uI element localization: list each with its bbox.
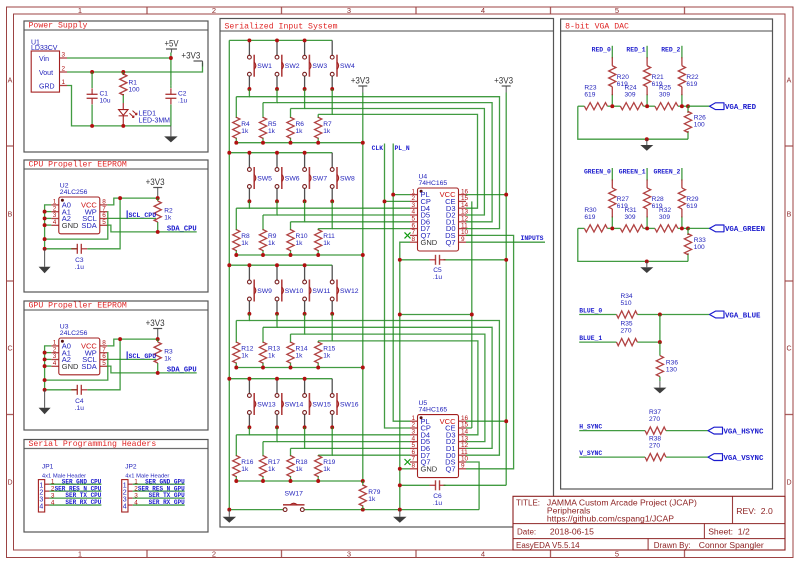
wire SW4 bus to U4 D0 xyxy=(332,114,477,208)
wire SW16 bus to U5 D7 xyxy=(332,454,410,456)
svg-text:REV: 2.0: REV: 2.0 xyxy=(736,506,773,516)
svg-text:10u: 10u xyxy=(100,98,111,105)
svg-text:130: 130 xyxy=(666,366,677,373)
ground xyxy=(223,510,237,523)
resistor R30 xyxy=(584,207,607,232)
junction cap/VCC xyxy=(118,337,122,341)
svg-text:2018-06-15: 2018-06-15 xyxy=(550,527,594,537)
wire SW8 bus to U4 D7 xyxy=(332,228,410,230)
wire SW14 bus to U5 D5 xyxy=(277,441,410,443)
svg-text:B: B xyxy=(8,212,13,219)
svg-text:C3: C3 xyxy=(75,257,84,264)
switch SW15 xyxy=(303,379,331,428)
junction WP gnd xyxy=(43,237,47,241)
wire RED_1 input xyxy=(646,46,648,59)
capacitor C5 xyxy=(430,255,446,281)
junction C5 right/+3V3 xyxy=(504,258,508,262)
wire CLK to U4 CP xyxy=(385,200,411,202)
wire SW7 bus to U4 D6 xyxy=(305,221,410,223)
svg-text:1k: 1k xyxy=(241,353,249,360)
svg-text:A: A xyxy=(787,78,792,85)
svg-text:GRD: GRD xyxy=(39,84,55,91)
wire left common vertical xyxy=(228,40,230,509)
svg-text:619: 619 xyxy=(686,81,697,88)
wire pin 4 SER_RX_CPU xyxy=(49,504,101,506)
junction CLK/U4 xyxy=(383,199,387,203)
ground xyxy=(653,381,666,393)
wire PL_N vertical xyxy=(393,144,410,422)
wire SW16 output jog xyxy=(318,427,332,455)
svg-text:5: 5 xyxy=(615,6,619,15)
resistor R27 xyxy=(609,180,630,218)
junction SW10 output xyxy=(275,312,279,316)
svg-text:SER_TX_GPU: SER_TX_GPU xyxy=(149,492,185,499)
switch SW3 xyxy=(303,40,328,89)
ic U4 74HC165 xyxy=(410,174,469,252)
junction SW4 output xyxy=(330,87,334,91)
net label SCL_CPU xyxy=(127,210,156,219)
svg-text:.1u: .1u xyxy=(75,264,84,271)
net label PL_N xyxy=(395,145,410,152)
junction SW15 output xyxy=(303,425,307,429)
wire Vout rail xyxy=(67,63,203,73)
resistor R35 xyxy=(617,321,638,346)
svg-text:74HC165: 74HC165 xyxy=(419,180,448,187)
wire SW5 bus to U4 D4 xyxy=(249,207,410,209)
wire SW15 bus to U5 D6 xyxy=(305,447,410,449)
wire switch row 3 top rail xyxy=(229,264,332,266)
junction top rail xyxy=(247,263,251,267)
svg-text:4: 4 xyxy=(51,499,55,506)
junction resistor/rail xyxy=(316,479,320,483)
wire SW5 output jog xyxy=(236,201,249,208)
resistor R18 xyxy=(287,456,308,477)
svg-text:SER_TX_CPU: SER_TX_CPU xyxy=(65,492,101,499)
wire SW12 output jog xyxy=(318,314,332,341)
svg-text:Vin: Vin xyxy=(39,56,49,63)
junction resistor/rail xyxy=(289,253,293,257)
junction rail/+3V3 vertical xyxy=(361,366,365,370)
wire SW9 bus to U5 D3 xyxy=(249,321,499,456)
resistor R17 xyxy=(259,456,280,477)
svg-text:270: 270 xyxy=(621,328,632,335)
resistor R33 xyxy=(684,234,706,255)
wire pin 3 SER_TX_GPU xyxy=(133,497,185,499)
switch SW17 xyxy=(229,491,304,512)
svg-text:SW5: SW5 xyxy=(257,176,272,183)
junction VCC/R pullup xyxy=(156,337,160,341)
no-connect flag xyxy=(405,459,411,465)
junction resistor/rail xyxy=(234,141,238,145)
resistor R6 wires xyxy=(290,109,292,118)
svg-text:B: B xyxy=(787,212,792,219)
svg-text:1: 1 xyxy=(39,482,43,489)
junction xyxy=(43,351,47,355)
svg-text:SW3: SW3 xyxy=(312,63,327,70)
svg-text:GND: GND xyxy=(421,238,438,247)
junction dac rail xyxy=(645,226,649,230)
svg-text:+3V3: +3V3 xyxy=(494,76,513,86)
junction C5 left/gnd xyxy=(398,258,402,262)
wire SW14 output jog xyxy=(263,427,277,441)
svg-text:.1u: .1u xyxy=(433,500,442,507)
svg-text:2: 2 xyxy=(212,6,216,15)
svg-text:R34: R34 xyxy=(621,293,633,300)
resistor R23 xyxy=(584,85,607,110)
port VGA_HSYNC xyxy=(708,427,764,436)
header JP1 4x1 Male Header xyxy=(38,464,86,513)
ic U2 24LC256 xyxy=(51,183,107,234)
svg-text:H_SYNC: H_SYNC xyxy=(579,424,602,431)
wire left pin xyxy=(45,211,52,213)
svg-text:+3V3: +3V3 xyxy=(146,318,165,328)
svg-text:1k: 1k xyxy=(296,128,304,135)
svg-text:1k: 1k xyxy=(268,466,276,473)
wire SW1 output jog xyxy=(236,89,249,97)
svg-text:R15: R15 xyxy=(323,346,335,353)
junction top rail xyxy=(275,38,279,42)
wire SW2 output jog xyxy=(263,89,277,103)
svg-text:1: 1 xyxy=(62,79,66,86)
junction SW6 output xyxy=(275,199,279,203)
resistor R29 xyxy=(678,180,699,218)
svg-text:GND: GND xyxy=(62,221,79,230)
svg-text:R14: R14 xyxy=(296,346,308,353)
wire VCC to +3V3 xyxy=(107,339,157,346)
junction SW5 output xyxy=(247,199,251,203)
svg-text:2: 2 xyxy=(212,549,216,558)
svg-text:1k: 1k xyxy=(268,240,276,247)
svg-text:R1: R1 xyxy=(129,80,138,87)
junction SW12 output xyxy=(330,312,334,316)
svg-text:GND: GND xyxy=(62,362,79,371)
junction xyxy=(43,210,47,214)
svg-text:Sheet: 1/2: Sheet: 1/2 xyxy=(708,527,750,537)
svg-text:619: 619 xyxy=(584,214,595,221)
wire pullup rail row 2 xyxy=(236,254,362,256)
svg-text:SDA_GPU: SDA_GPU xyxy=(167,366,197,374)
wire SW10 bus to U5 D2 xyxy=(277,327,492,448)
wire switch row 2 top rail xyxy=(229,152,332,154)
svg-text:Q7: Q7 xyxy=(445,464,455,473)
svg-text:R3: R3 xyxy=(164,349,173,356)
resistor R13 wires xyxy=(262,327,264,342)
wire +3V3 right vertical xyxy=(505,93,507,486)
svg-text:LED-3MM: LED-3MM xyxy=(139,117,171,124)
junction gnd/LED1 xyxy=(121,124,125,128)
resistor R3 wires xyxy=(157,339,159,342)
wire VCC to +3V3 xyxy=(107,198,157,205)
power +3V3 xyxy=(146,177,165,198)
svg-text:5: 5 xyxy=(102,360,106,367)
svg-text:SW4: SW4 xyxy=(340,63,355,70)
svg-text:1k: 1k xyxy=(241,128,249,135)
wire dac rail xyxy=(578,105,585,107)
svg-text:4: 4 xyxy=(39,503,43,510)
svg-text:R7: R7 xyxy=(323,121,332,128)
svg-text:VGA_GREEN: VGA_GREEN xyxy=(725,226,765,234)
resistor R36 xyxy=(656,356,678,377)
junction gnd stem dac xyxy=(645,137,649,141)
junction gnd cap row xyxy=(43,247,47,251)
wire SW15 output jog xyxy=(291,427,305,448)
resistor R26 xyxy=(684,111,706,132)
svg-text:SW10: SW10 xyxy=(285,288,304,295)
resistor R3 xyxy=(154,342,173,363)
wire dac ground return xyxy=(578,106,688,139)
resistor R10 xyxy=(287,230,308,251)
wire U5 VCC xyxy=(466,420,506,422)
wire pin 3 SER_TX_CPU xyxy=(49,497,101,499)
svg-text:1k: 1k xyxy=(241,240,249,247)
svg-text:C1: C1 xyxy=(100,91,109,98)
svg-text:VGA_BLUE: VGA_BLUE xyxy=(725,312,761,320)
wire PL_N to U4 PL xyxy=(393,194,410,196)
svg-text:3: 3 xyxy=(347,6,351,15)
svg-text:SER_RES_N_CPU: SER_RES_N_CPU xyxy=(55,485,102,492)
net label CLK xyxy=(372,145,384,152)
wire U4 CE / U5 CE common xyxy=(466,234,472,236)
resistor R4 wires xyxy=(235,97,237,118)
resistor R2 xyxy=(154,201,173,222)
svg-text:R26: R26 xyxy=(694,115,706,122)
resistor R31 xyxy=(620,207,643,232)
svg-text:SDA_CPU: SDA_CPU xyxy=(167,225,197,233)
svg-text:619: 619 xyxy=(584,92,595,99)
svg-text:SDA: SDA xyxy=(81,362,96,371)
ground xyxy=(39,390,51,415)
svg-text:SW11: SW11 xyxy=(312,288,330,295)
junction rail/+3V3 vertical xyxy=(361,479,365,483)
junction dac out xyxy=(686,104,690,108)
svg-text:1k: 1k xyxy=(323,240,331,247)
wire GREEN_0 input xyxy=(611,168,613,181)
svg-text:4: 4 xyxy=(481,549,485,558)
svg-text:R8: R8 xyxy=(241,233,250,240)
svg-text:SW1: SW1 xyxy=(257,63,272,70)
ground xyxy=(393,510,407,523)
wire BLUE_1 xyxy=(579,341,616,343)
junction resistor/rail xyxy=(261,479,265,483)
wire SW6 bus to U4 D5 xyxy=(277,214,410,216)
resistor R11 xyxy=(315,230,336,251)
capacitor C6 xyxy=(430,480,446,507)
wire SW12 bus to U5 D0 xyxy=(332,341,478,435)
svg-text:CPU Propeller EEPROM: CPU Propeller EEPROM xyxy=(29,160,127,170)
junction gnd/C1 xyxy=(90,124,94,128)
svg-text:1k: 1k xyxy=(323,466,331,473)
svg-text:4: 4 xyxy=(134,499,138,506)
switch SW9 xyxy=(248,265,273,314)
junction cap/VCC xyxy=(118,196,122,200)
capacitor C3 xyxy=(71,244,87,271)
svg-text:.1u: .1u xyxy=(433,274,442,281)
junction WP gnd xyxy=(43,378,47,382)
svg-text:VGA_RED: VGA_RED xyxy=(725,104,757,112)
junction resistor/rail xyxy=(316,253,320,257)
svg-text:SW16: SW16 xyxy=(340,402,359,409)
wire H_SYNC xyxy=(579,430,645,432)
svg-text:.1u: .1u xyxy=(178,98,187,105)
svg-text:C: C xyxy=(7,346,12,353)
resistor R34 xyxy=(617,293,638,318)
svg-text:R35: R35 xyxy=(621,321,633,328)
svg-text:+3V3: +3V3 xyxy=(181,51,200,61)
svg-text:SW17: SW17 xyxy=(284,491,303,498)
capacitor C6 wires xyxy=(400,484,430,486)
svg-text:24LC256: 24LC256 xyxy=(60,189,88,196)
wire SW6 output jog xyxy=(263,201,277,215)
wire cap to VCC net xyxy=(87,339,120,390)
resistor R17 wires xyxy=(262,442,264,457)
resistor R5 xyxy=(259,117,276,138)
svg-text:Date:: Date: xyxy=(517,528,536,537)
junction top rail xyxy=(247,377,251,381)
resistor R19 xyxy=(315,456,336,477)
resistor R8 xyxy=(233,230,250,251)
svg-text:SW12: SW12 xyxy=(340,288,359,295)
svg-text:9: 9 xyxy=(461,463,465,470)
svg-text:R10: R10 xyxy=(296,233,308,240)
svg-text:R19: R19 xyxy=(323,459,335,466)
junction xyxy=(43,216,47,220)
junction top rail xyxy=(303,263,307,267)
svg-text:2: 2 xyxy=(123,489,127,496)
ground xyxy=(39,249,51,273)
junction xyxy=(43,364,47,368)
wire switch row 1 top rail xyxy=(229,39,332,41)
svg-text:2: 2 xyxy=(62,66,66,73)
wire SW7 output jog xyxy=(291,201,305,222)
switch SW12 xyxy=(330,265,358,314)
resistor R16 wires xyxy=(235,435,237,456)
svg-text:Power Supply: Power Supply xyxy=(29,21,88,31)
svg-text:D: D xyxy=(786,480,791,487)
wire pin 2 SER_RES_N_CPU xyxy=(49,490,101,492)
svg-text:D: D xyxy=(7,480,12,487)
junction resistor/rail xyxy=(289,479,293,483)
svg-text:R27: R27 xyxy=(617,196,629,203)
svg-text:2: 2 xyxy=(39,489,43,496)
svg-text:SER_RX_CPU: SER_RX_CPU xyxy=(65,499,101,506)
svg-text:SER_GND_CPU: SER_GND_CPU xyxy=(62,478,102,485)
switch SW1 xyxy=(248,40,273,89)
junction dac rail xyxy=(610,226,614,230)
junction top rail xyxy=(303,377,307,381)
svg-text:24LC256: 24LC256 xyxy=(60,330,88,337)
svg-text:R37: R37 xyxy=(649,409,661,416)
wire RED_2 input xyxy=(681,46,683,59)
resistor R10 wires xyxy=(290,222,292,230)
svg-text:EasyEDA V5.5.14: EasyEDA V5.5.14 xyxy=(516,541,580,550)
svg-text:SW9: SW9 xyxy=(257,288,272,295)
junction resistor/rail xyxy=(261,366,265,370)
resistor R5 wires xyxy=(262,103,264,118)
wire SW13 bus to U5 D4 xyxy=(249,434,410,436)
switch SW7 xyxy=(303,153,328,202)
resistor R32 xyxy=(655,207,678,232)
svg-text:74HC165: 74HC165 xyxy=(419,407,448,414)
wire dac rail xyxy=(578,227,585,229)
junction resistor/rail xyxy=(316,366,320,370)
wire SW11 output jog xyxy=(291,314,305,334)
svg-text:Connor Spangler: Connor Spangler xyxy=(699,540,764,550)
svg-text:R4: R4 xyxy=(241,121,250,128)
resistor R4 xyxy=(233,117,250,138)
svg-text:3: 3 xyxy=(62,52,66,59)
junction resistor/rail xyxy=(261,253,265,257)
resistor R9 xyxy=(259,230,276,251)
svg-text:R20: R20 xyxy=(617,74,629,81)
regulator U1 LD33CV xyxy=(31,40,67,93)
capacitor C1 wires xyxy=(91,72,93,88)
svg-text:SW14: SW14 xyxy=(285,402,304,409)
resistor R22 xyxy=(678,57,699,95)
svg-text:1: 1 xyxy=(78,6,82,15)
svg-text:JP2: JP2 xyxy=(125,464,137,471)
resistor R15 xyxy=(315,342,336,363)
svg-text:SW2: SW2 xyxy=(285,63,300,70)
capacitor C4 xyxy=(71,385,87,412)
svg-text:3: 3 xyxy=(51,492,55,499)
svg-text:R36: R36 xyxy=(666,359,678,366)
ground xyxy=(164,126,178,142)
junction BLUE_0 node xyxy=(658,313,662,317)
wire INPUTS xyxy=(466,241,545,243)
svg-text:SW6: SW6 xyxy=(285,176,300,183)
svg-text:Serial Programming Headers: Serial Programming Headers xyxy=(29,439,157,449)
svg-text:Vout: Vout xyxy=(39,70,53,77)
svg-text:4: 4 xyxy=(481,6,485,15)
capacitor C1 xyxy=(87,88,111,104)
svg-text:GREEN_0: GREEN_0 xyxy=(584,169,611,176)
svg-text:100: 100 xyxy=(694,122,705,129)
svg-text:SER_RES_N_GPU: SER_RES_N_GPU xyxy=(138,485,185,492)
junction SW9 output xyxy=(247,312,251,316)
resistor R7 xyxy=(315,117,332,138)
svg-text:100: 100 xyxy=(694,244,705,251)
section box Serialized Input System xyxy=(220,19,554,528)
wire Vin to +5V xyxy=(67,57,171,59)
wire to port VGA_RED xyxy=(688,105,710,107)
junction U5 GND xyxy=(398,467,402,471)
junction top rail xyxy=(275,151,279,155)
svg-text:https://github.com/cspang1/JCA: https://github.com/cspang1/JCAP xyxy=(547,513,674,523)
power +3V3 xyxy=(146,318,165,339)
junction resistor/rail xyxy=(234,366,238,370)
wire pin 1 SER_GND_CPU xyxy=(49,483,101,485)
power +5V xyxy=(165,39,180,53)
junction rail/+3V3 vertical xyxy=(361,141,365,145)
svg-text:SDA: SDA xyxy=(81,221,96,230)
wire +3V3 mid vertical xyxy=(362,93,364,482)
svg-text:SER_GND_GPU: SER_GND_GPU xyxy=(145,478,185,485)
svg-text:309: 309 xyxy=(659,92,670,99)
svg-text:1k: 1k xyxy=(164,215,172,222)
svg-text:SER_RX_GPU: SER_RX_GPU xyxy=(149,499,185,506)
junction SW16 output xyxy=(330,425,334,429)
resistor R15 wires xyxy=(317,341,319,343)
svg-text:R21: R21 xyxy=(652,74,664,81)
resistor R2 wires xyxy=(157,198,159,201)
svg-text:4: 4 xyxy=(53,219,57,226)
junction top rail xyxy=(303,151,307,155)
svg-text:+5V: +5V xyxy=(165,39,180,49)
junction resistor/rail xyxy=(234,253,238,257)
ground xyxy=(640,139,653,151)
junction SW17 left xyxy=(227,508,231,512)
wire SW11 bus to U5 D1 xyxy=(305,334,485,442)
